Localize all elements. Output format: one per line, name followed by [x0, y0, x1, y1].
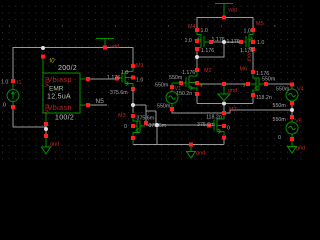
svg-text:1.176: 1.176	[227, 39, 240, 45]
svg-text:375.6m: 375.6m	[197, 122, 215, 128]
svg-text:550m: 550m	[273, 103, 287, 109]
svg-text:EMR: EMR	[49, 86, 64, 93]
wire node Vout	[246, 51, 253, 71]
svg-text:118.2n: 118.2n	[206, 115, 222, 121]
svg-text:Vbiasn: Vbiasn	[48, 103, 72, 112]
transistor M2 (nmos cascode)	[169, 68, 212, 97]
ground (bottom right)	[288, 137, 306, 153]
svg-text:gnd: gnd	[228, 88, 237, 94]
wire M2 bulk to gnd and M6 gate	[199, 83, 246, 85]
wire Vbiasp to M1 gate	[90, 78, 115, 80]
svg-text:V5: V5	[295, 119, 302, 125]
ground (on gate bias wire)	[218, 82, 237, 101]
svg-text:Vout: Vout	[246, 51, 252, 62]
wire M7 source to ground rail	[223, 139, 225, 145]
svg-text:550m: 550m	[169, 75, 183, 81]
svg-text:0: 0	[278, 135, 281, 141]
svg-text:Vdd: Vdd	[44, 77, 50, 87]
pin label s (M2 bulk)	[200, 83, 203, 89]
wire gnd net to M7 gate	[146, 125, 207, 145]
wire M2 source to M6 source node	[197, 96, 253, 111]
svg-text:1.0: 1.0	[185, 38, 192, 44]
svg-text:M5: M5	[256, 21, 264, 27]
svg-text:1.0: 1.0	[244, 29, 251, 35]
svg-text:gnd: gnd	[50, 142, 59, 148]
svg-text:12.5uA: 12.5uA	[47, 94, 71, 101]
svg-text:M2: M2	[204, 68, 212, 74]
transistor M7 (nmos)	[197, 107, 237, 140]
voltage source V4 (550m)	[273, 83, 304, 110]
ground (left, below bias block)	[42, 134, 60, 154]
wire V1 minus to M7 drain and V4 minus	[172, 110, 292, 113]
wire M6 bulk to V4 plus	[268, 83, 292, 85]
svg-text:gnd: gnd	[196, 151, 205, 157]
svg-text:M4: M4	[188, 24, 196, 30]
svg-text:M7: M7	[229, 107, 237, 113]
svg-text:gnd: gnd	[296, 146, 305, 152]
wire V1 plus to M2 gate	[172, 83, 179, 85]
ground (bottom middle)	[187, 143, 206, 159]
svg-text:1.0: 1.0	[257, 40, 264, 46]
wire node to M3 bulk branch	[133, 105, 156, 125]
svg-text:N5: N5	[96, 98, 105, 105]
svg-text:550m: 550m	[273, 117, 287, 123]
svg-text:M3: M3	[118, 113, 126, 119]
svg-text:M1: M1	[136, 63, 144, 69]
svg-text:118.2n: 118.2n	[256, 95, 272, 101]
svg-text:550m: 550m	[262, 77, 276, 83]
wire / node N5 stub	[90, 98, 107, 105]
svg-text:0: 0	[3, 103, 6, 109]
transistor M6 (nmos)	[240, 67, 276, 102]
svg-text:550m: 550m	[157, 104, 171, 110]
wire M1 source to M3 drain	[132, 90, 134, 113]
transistor M5 (pmos)	[227, 21, 265, 54]
svg-text:0: 0	[227, 126, 230, 132]
solder junction dots	[41, 40, 294, 131]
transistor M1 (pmos)	[107, 63, 144, 96]
svg-text:0: 0	[124, 124, 127, 130]
svg-text:1.0: 1.0	[136, 78, 143, 84]
svg-text:V4: V4	[297, 87, 304, 93]
svg-text:I1: I1	[17, 80, 22, 86]
svg-text:1.176: 1.176	[201, 48, 214, 54]
vdd symbol (left)	[96, 39, 119, 51]
vdd symbol (top)	[215, 4, 237, 20]
pin label s (M6 gate)	[243, 83, 246, 89]
svg-text:375.6m: 375.6m	[110, 90, 128, 96]
transistor M3 (nmos)	[118, 113, 167, 140]
svg-text:M6: M6	[240, 67, 248, 73]
bias generator block I0 (EMR 12.5uA)	[41, 55, 90, 127]
svg-text:V1: V1	[175, 86, 182, 92]
svg-text:200/2: 200/2	[58, 65, 77, 72]
svg-text:vdd: vdd	[228, 8, 237, 14]
svg-text:550m: 550m	[276, 87, 290, 93]
current source I1 value 1.0uA	[1, 79, 22, 109]
svg-text:375.6m: 375.6m	[137, 116, 155, 122]
svg-text:1.0: 1.0	[1, 80, 8, 86]
svg-text:1.176: 1.176	[182, 70, 195, 76]
wire vdd loop to M4 M5 sources	[197, 18, 253, 29]
svg-text:100/2: 100/2	[55, 115, 74, 122]
voltage source V5 (0V)	[273, 115, 302, 141]
svg-text:I0: I0	[50, 59, 56, 65]
wire V4 minus to V5 plus	[291, 105, 293, 115]
svg-text:550m: 550m	[155, 83, 169, 89]
wire ground rail (bottom)	[133, 140, 224, 145]
wire M4 M5 gate mirror connection	[197, 42, 239, 68]
wire I1 bottom to gnd	[13, 108, 46, 136]
svg-text:1.176: 1.176	[107, 75, 120, 81]
svg-text:Vbiasp: Vbiasp	[48, 75, 72, 84]
svg-text:vdd: vdd	[111, 44, 120, 50]
transistor M4 (pmos)	[185, 24, 225, 54]
wire vdd rail from I1 to M1 drain	[13, 48, 133, 82]
voltage source V1 (550m)	[155, 83, 181, 112]
svg-text:1.0: 1.0	[121, 70, 128, 76]
svg-text:1.0: 1.0	[201, 28, 208, 34]
svg-text:Vss: Vss	[44, 104, 50, 113]
